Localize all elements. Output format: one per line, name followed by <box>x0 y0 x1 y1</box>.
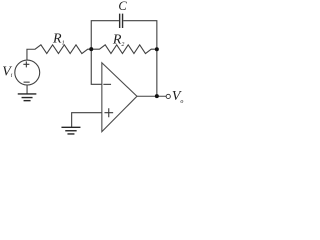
svg-text:R2: R2 <box>112 33 125 48</box>
svg-text:Vo: Vo <box>172 89 184 105</box>
svg-text:C: C <box>118 0 127 13</box>
svg-text:R1: R1 <box>52 31 65 46</box>
svg-text:Vi: Vi <box>2 65 13 80</box>
